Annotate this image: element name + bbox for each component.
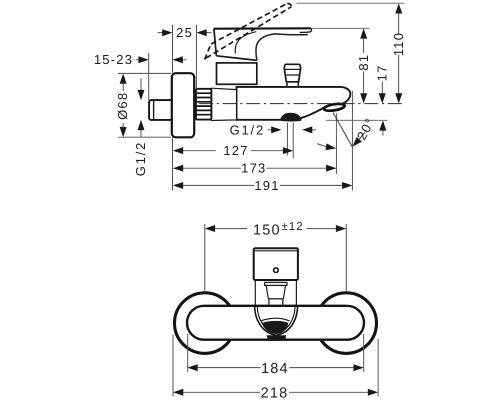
mixer body barrel <box>237 87 351 120</box>
cartridge collar <box>217 63 257 84</box>
svg-text:±12: ±12 <box>282 221 304 233</box>
outlet stub (black) <box>267 335 286 341</box>
cartridge sleeve <box>255 280 296 306</box>
svg-text:110: 110 <box>391 32 406 56</box>
spout lip extension line <box>335 114 337 175</box>
svg-text:15-23: 15-23 <box>94 52 133 67</box>
svg-text:127: 127 <box>223 143 248 158</box>
svg-text:G1/2: G1/2 <box>133 141 148 176</box>
svg-text:G1/2: G1/2 <box>230 122 265 137</box>
dim 184 <box>187 334 363 377</box>
lever handle <box>214 28 312 60</box>
wall escutcheon <box>172 73 194 137</box>
svg-text:150: 150 <box>253 222 281 238</box>
dim 25 <box>158 25 212 89</box>
body bar <box>187 306 364 340</box>
dim diameter 68 <box>115 73 171 137</box>
dim 150 +/-12 <box>205 221 346 291</box>
svg-text:20°: 20° <box>354 115 378 143</box>
svg-text:Ø68: Ø68 <box>115 92 130 120</box>
wall nipple G1/2 <box>149 100 172 120</box>
temperature dot <box>274 268 279 273</box>
svg-text:191: 191 <box>254 178 279 193</box>
spout outlet lip (black) <box>323 103 345 112</box>
dim 17 <box>326 64 390 135</box>
union cone <box>211 88 236 120</box>
spout rim arc <box>261 318 290 321</box>
dim 15-23 <box>94 52 187 100</box>
spout end extension line <box>351 91 353 191</box>
svg-text:25: 25 <box>176 25 193 40</box>
dim 127 <box>173 143 293 158</box>
dim 110 <box>297 3 406 103</box>
wall reference line <box>172 137 174 190</box>
right escutcheon circle <box>316 293 377 354</box>
union nut <box>196 89 212 120</box>
svg-text:173: 173 <box>241 161 266 176</box>
diverter knob <box>284 64 301 87</box>
raised lever (dashed) <box>205 3 292 59</box>
angle 20 deg <box>317 113 378 151</box>
outlet extension lines <box>287 123 293 159</box>
dim 81 <box>312 28 371 103</box>
spout opening (black bowl) <box>262 321 289 334</box>
svg-text:17: 17 <box>375 64 390 81</box>
handle knob front <box>254 248 298 280</box>
shower outlet hump (black) <box>280 113 301 122</box>
spout bell <box>255 307 298 336</box>
left escutcheon circle <box>175 293 236 354</box>
dim 191 <box>173 178 353 193</box>
svg-text:81: 81 <box>356 54 371 71</box>
label G1/2 wall thread <box>133 79 148 177</box>
dim 173 <box>173 161 337 176</box>
label G1/2 spout outlet <box>230 122 317 137</box>
body centerline <box>199 103 405 105</box>
svg-text:218: 218 <box>261 386 289 400</box>
dim 218 <box>173 335 378 400</box>
svg-text:184: 184 <box>261 361 289 377</box>
